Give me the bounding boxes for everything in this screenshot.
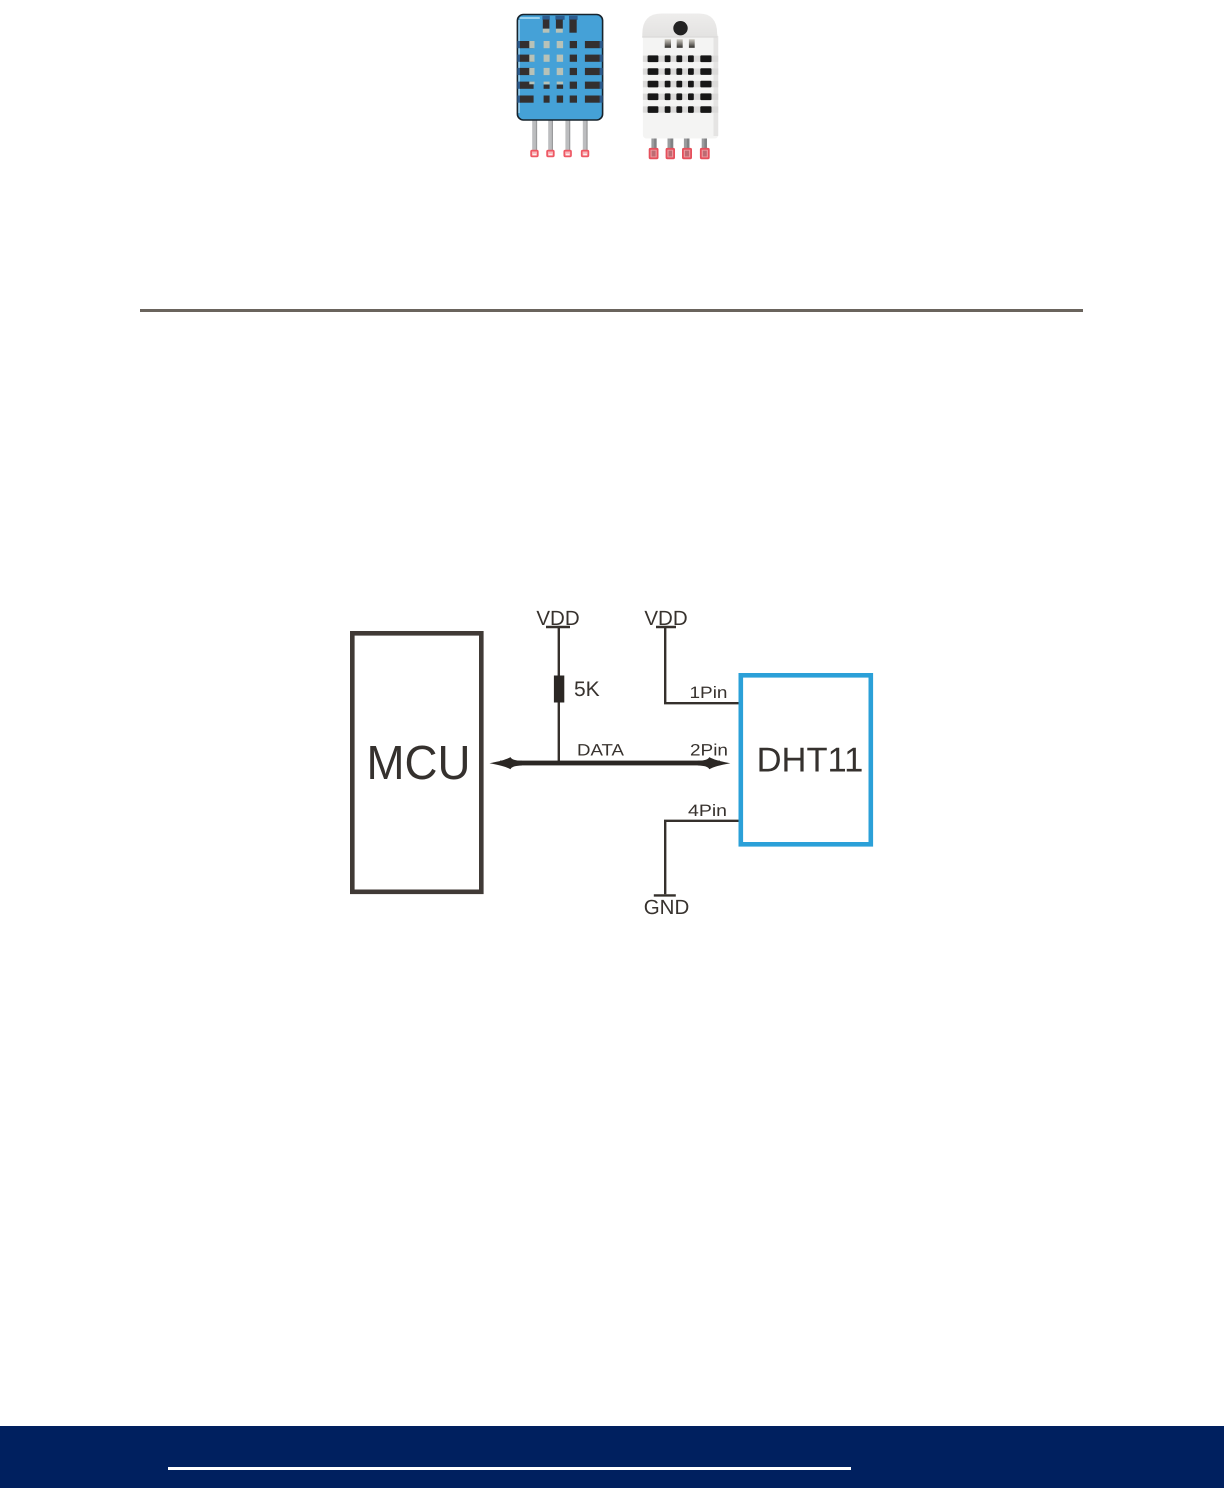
- svg-text:DHT11: DHT11: [757, 742, 864, 780]
- svg-text:2Pin: 2Pin: [690, 742, 728, 760]
- svg-text:VDD: VDD: [644, 607, 687, 630]
- svg-text:4Pin: 4Pin: [688, 802, 727, 820]
- svg-text:GND: GND: [644, 896, 690, 919]
- svg-text:VDD: VDD: [536, 607, 579, 630]
- svg-text:1Pin: 1Pin: [690, 684, 728, 702]
- svg-text:MCU: MCU: [367, 737, 471, 790]
- svg-text:5K: 5K: [574, 678, 600, 701]
- svg-text:DATA: DATA: [577, 742, 624, 760]
